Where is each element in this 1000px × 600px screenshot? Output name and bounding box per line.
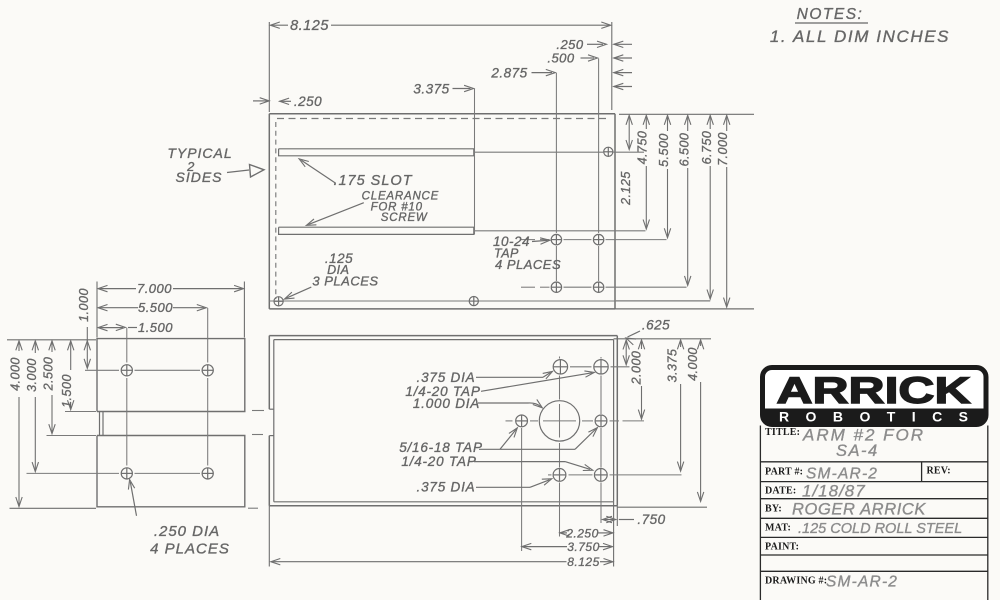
dim 2.250 <box>560 530 570 536</box>
svg-text:4 PLACES: 4 PLACES <box>495 257 561 272</box>
svg-text:4.000: 4.000 <box>686 347 700 381</box>
row line top holes <box>570 366 592 368</box>
slot 2 extension line <box>474 230 646 232</box>
dim 1.500 left part <box>98 324 108 330</box>
dim .750 <box>603 516 613 522</box>
svg-text:4 PLACES: 4 PLACES <box>150 541 230 558</box>
svg-text:2.000: 2.000 <box>629 351 643 386</box>
left part lower rectangle <box>97 436 245 507</box>
svg-text:SM-AR-2: SM-AR-2 <box>806 466 878 483</box>
svg-text:TITLE:: TITLE: <box>765 427 800 438</box>
hole 1/4-20 top-right <box>594 360 608 374</box>
dim 7.000 left part <box>96 282 98 338</box>
left part slot end lines <box>99 412 101 436</box>
bottom extension line right <box>617 506 707 508</box>
hole 5/16-18 mid-right <box>595 415 607 427</box>
projection stub left of bottom plate <box>248 507 258 509</box>
dim .625 right <box>623 340 629 350</box>
svg-text:3.750: 3.750 <box>567 540 600 554</box>
svg-text:2.500: 2.500 <box>41 357 55 392</box>
svg-text:8.125: 8.125 <box>567 555 600 569</box>
top extension line for stack <box>619 113 754 115</box>
rev divider <box>921 462 923 482</box>
svg-text:.375 DIA: .375 DIA <box>417 370 476 385</box>
svg-text:TYPICAL: TYPICAL <box>167 145 232 161</box>
dim 2.500 left <box>49 341 55 351</box>
dim 8.125 bottom <box>271 559 281 565</box>
svg-text:3.375: 3.375 <box>413 82 449 97</box>
center column line right <box>600 357 602 359</box>
left part hole row line top <box>85 369 119 371</box>
dim 6.750 <box>707 115 713 125</box>
svg-text:5.500: 5.500 <box>138 300 173 315</box>
svg-text:1.000: 1.000 <box>77 288 91 322</box>
hole row 2 line <box>521 286 535 288</box>
hole .375 bottom-left <box>553 469 566 482</box>
slot 2 (.175 slot) <box>279 227 474 234</box>
svg-text:7.000: 7.000 <box>716 132 730 166</box>
big hole 1.000 dia <box>539 401 579 441</box>
dim 3.375 bottom <box>677 340 683 350</box>
slot 1 (.175 slot) <box>279 149 474 156</box>
logo rounded border <box>763 368 987 425</box>
svg-text:5/16-18 TAP: 5/16-18 TAP <box>399 440 483 455</box>
hole 10-24 top-right <box>593 234 603 244</box>
dim 2.000 <box>638 340 644 350</box>
dim 5.500 left part <box>98 305 108 311</box>
slot end extension vertical (3.375) <box>474 89 476 235</box>
hole .125 bottom-mid <box>469 297 478 306</box>
svg-text:SCREW: SCREW <box>381 212 428 224</box>
svg-text:1.500: 1.500 <box>60 374 74 408</box>
svg-text:NOTES:: NOTES: <box>797 6 864 23</box>
svg-text:.125 COLD ROLL STEEL: .125 COLD ROLL STEEL <box>798 521 962 537</box>
dim 2.125 <box>626 115 632 125</box>
hole row 1 line <box>521 239 535 241</box>
hole column line left <box>555 73 557 233</box>
svg-text:1.000 DIA: 1.000 DIA <box>413 396 480 411</box>
dim 4.000 bottom <box>697 340 703 350</box>
hole .125 bottom-left <box>274 297 283 306</box>
svg-text:PART #:: PART #: <box>765 467 803 478</box>
svg-text:1. ALL DIM INCHES: 1. ALL DIM INCHES <box>770 27 950 46</box>
left part holes <box>121 365 132 376</box>
svg-text:4.750: 4.750 <box>636 131 650 165</box>
svg-text:.250 DIA: .250 DIA <box>154 523 220 540</box>
row line bottom holes <box>548 474 552 476</box>
svg-text:SA-4: SA-4 <box>836 442 879 460</box>
ext line left edge down <box>268 506 270 567</box>
slot 1 row line right of plate <box>614 151 645 153</box>
svg-text:1/18/87: 1/18/87 <box>802 482 866 501</box>
top plate bottom edge + right extension <box>269 308 615 310</box>
dim 1.500 left <box>68 341 74 351</box>
hole 10-24 bottom-left <box>551 282 561 292</box>
svg-text:ROGER ARRICK: ROGER ARRICK <box>792 501 926 519</box>
column line mid-left hole <box>521 428 523 551</box>
dim 7.000 <box>724 115 730 125</box>
bottom row line through .125 holes <box>269 300 710 302</box>
hole 5/16-18 mid-left <box>516 415 528 427</box>
hole .375 top-left <box>553 360 567 374</box>
svg-text:.175 SLOT: .175 SLOT <box>333 173 412 189</box>
svg-text:1/4-20 TAP: 1/4-20 TAP <box>401 454 476 469</box>
left part slot top extension <box>65 411 96 413</box>
svg-text:DATE:: DATE: <box>765 486 796 497</box>
hole 1/4-20 bottom-right <box>594 469 607 482</box>
svg-text:3.375: 3.375 <box>665 349 679 383</box>
title block row lines <box>760 461 987 463</box>
svg-text:DRAWING #:: DRAWING #: <box>765 576 827 587</box>
left part upper rectangle <box>97 339 245 412</box>
right side leader arrows <box>614 41 624 47</box>
row ext line 6.750 target <box>616 300 710 302</box>
svg-text:1.500: 1.500 <box>138 320 173 335</box>
left part slot bottom extension <box>47 435 97 437</box>
dim 4.000 left <box>16 341 22 351</box>
top plate dashed bend line vertical <box>275 122 277 299</box>
svg-text:2.250: 2.250 <box>565 526 599 540</box>
dim 6.500 <box>685 115 691 125</box>
slot 1 extension line <box>474 151 604 153</box>
dim 3.750 <box>522 543 532 549</box>
left part hole column right <box>207 308 209 363</box>
svg-text:.250: .250 <box>294 94 322 109</box>
left part hole column left <box>126 328 128 363</box>
svg-text:2.875: 2.875 <box>490 66 527 81</box>
svg-text:5.500: 5.500 <box>657 133 671 167</box>
dim 8.125 top <box>268 22 270 112</box>
dim 5.500 <box>664 115 670 125</box>
svg-text:.500: .500 <box>547 51 575 66</box>
svg-text:SM-AR-2: SM-AR-2 <box>826 574 898 591</box>
svg-text:6.500: 6.500 <box>677 133 691 167</box>
svg-text:.750: .750 <box>637 512 665 527</box>
svg-text:8.125: 8.125 <box>290 18 329 34</box>
hole at slot1 right (.125 dia) <box>604 147 613 156</box>
top plate outline <box>269 113 615 115</box>
svg-text:.375 DIA: .375 DIA <box>417 480 476 495</box>
svg-text:7.000: 7.000 <box>137 281 172 296</box>
svg-text:BY:: BY: <box>765 504 782 515</box>
svg-text:REV:: REV: <box>927 466 951 477</box>
left part bottom edge extension <box>10 507 97 509</box>
svg-text:PAINT:: PAINT: <box>765 542 799 553</box>
center column line left <box>559 357 561 359</box>
svg-text:6.750: 6.750 <box>700 131 714 165</box>
svg-text:3.000: 3.000 <box>25 358 39 392</box>
hole column line right <box>598 59 600 234</box>
title block frame <box>759 426 761 600</box>
dim 1.000 left <box>86 327 88 367</box>
dim .250 top-left <box>253 100 268 102</box>
top extension line bottom plate <box>614 338 711 340</box>
svg-text:ARRICK: ARRICK <box>777 370 971 411</box>
svg-text:4.000: 4.000 <box>8 357 22 391</box>
hole 10-24 top-left <box>551 234 561 244</box>
bottom plate inner rectangle <box>274 339 614 341</box>
notch projection dashes <box>252 410 264 412</box>
top plate dashed bend line horizontal <box>277 118 610 120</box>
svg-text:3 PLACES: 3 PLACES <box>312 274 378 289</box>
ext lines right edge down <box>613 502 615 567</box>
left part hole row line bottom <box>27 472 120 474</box>
dim 3.000 left <box>32 341 38 351</box>
hole 10-24 bottom-right <box>593 282 603 292</box>
svg-text:MAT:: MAT: <box>765 523 791 534</box>
svg-text:SIDES: SIDES <box>175 169 222 185</box>
center line middle row <box>506 420 513 422</box>
dim 4.750 <box>643 115 649 125</box>
bottom plate notch stubs <box>269 408 274 410</box>
svg-text:2.125: 2.125 <box>619 171 633 206</box>
left part top edge extension <box>7 339 96 341</box>
bottom plate outer rectangle <box>269 335 617 337</box>
logo black bar <box>765 409 984 425</box>
svg-text:.625: .625 <box>642 318 670 333</box>
svg-text:.250: .250 <box>556 37 584 52</box>
